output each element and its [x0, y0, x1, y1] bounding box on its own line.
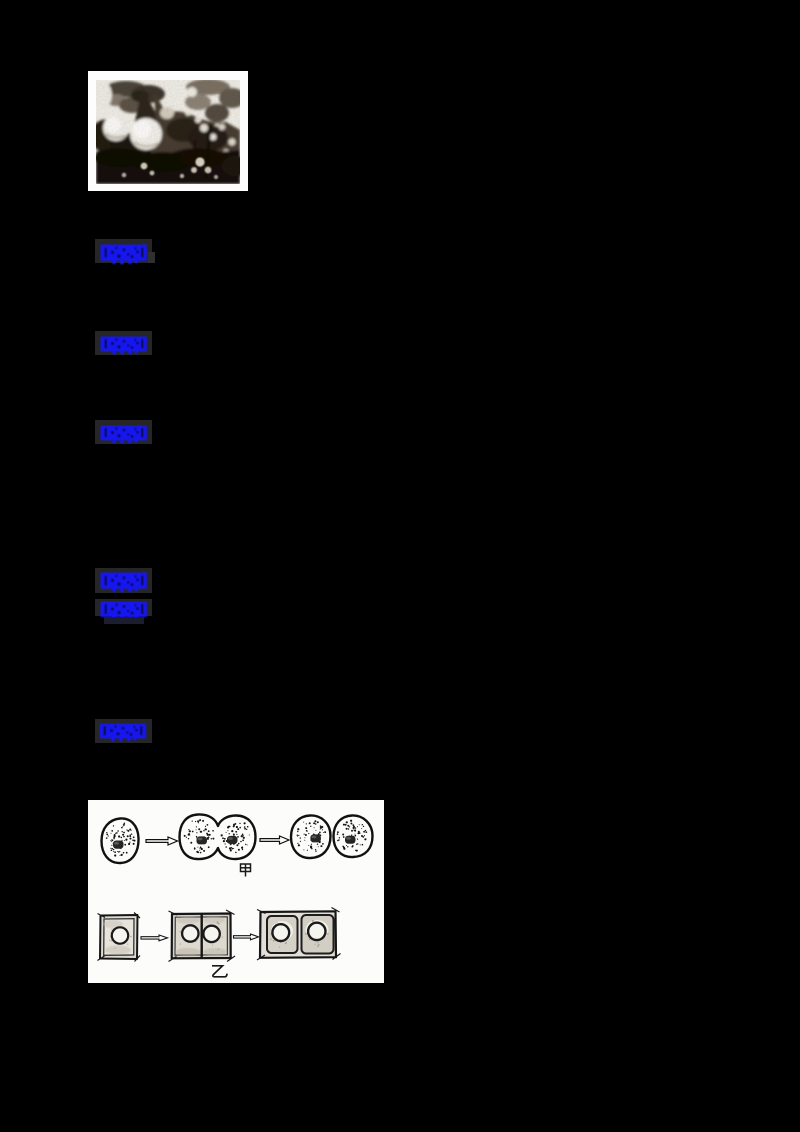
- glyph yi (bottom row label): [212, 966, 227, 977]
- dividing plant cell: [169, 910, 236, 962]
- plant arrow 2: [234, 934, 259, 940]
- animal cell 1: [102, 818, 139, 863]
- arrow 2: [260, 836, 289, 844]
- label 5 dark tail: [104, 617, 144, 624]
- label 6: blue heading blob: [95, 719, 152, 743]
- glyph jia (top row label): [241, 864, 251, 877]
- plant arrow 1: [141, 935, 168, 941]
- daughter animal cell A: [291, 815, 331, 858]
- plant daughter cells: [257, 908, 341, 961]
- label 1 halo step: [148, 252, 155, 263]
- diagram: cell division (animal top row / plant bottom row): [88, 800, 384, 983]
- plant cell 1: [98, 913, 141, 962]
- label 5: blue heading blob: [95, 599, 152, 616]
- photo: peony flowers snapshot: [88, 71, 248, 191]
- label 3: blue heading blob: [95, 420, 152, 444]
- daughter animal cell B: [334, 815, 373, 857]
- label 1: blue heading blob: [95, 239, 152, 263]
- arrow 1: [146, 837, 178, 845]
- label 4: blue heading blob: [95, 568, 152, 593]
- dividing animal cell pair: [180, 814, 256, 859]
- label 2: blue heading blob: [95, 331, 152, 355]
